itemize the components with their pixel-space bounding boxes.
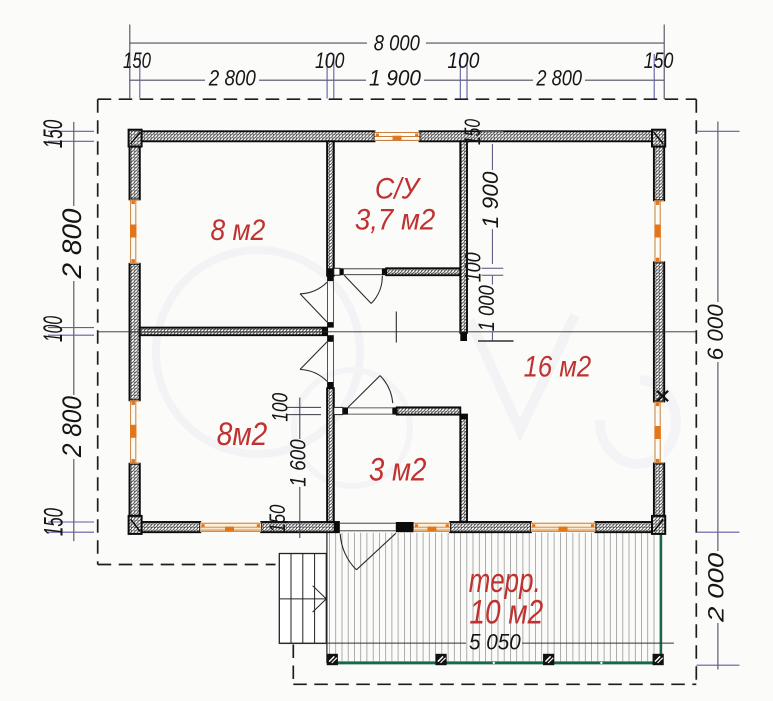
axis tick (395, 312, 397, 343)
top inner ticks (139, 54, 141, 99)
svg-text:3 м2: 3 м2 (369, 452, 427, 488)
wall: left, above upper window (130, 131, 140, 199)
svg-text:1 900: 1 900 (369, 65, 422, 90)
wall: right, between windows (654, 262, 664, 401)
svg-text:150: 150 (265, 504, 290, 533)
svg-text:8м2: 8м2 (217, 416, 268, 452)
window: left wall lower (8m2) (130, 400, 140, 463)
svg-text:100: 100 (447, 48, 480, 73)
svg-text:3,7 м2: 3,7 м2 (355, 204, 436, 237)
wall: bottom, centre-left segment (261, 522, 339, 532)
window: bottom wall (16m2) (531, 522, 596, 532)
interior dim column x=300 (287, 398, 321, 539)
svg-text:8 м2: 8 м2 (211, 214, 266, 247)
left ticks (48, 130, 94, 132)
wall: bottom, right segment (595, 522, 664, 532)
door: C/Y (opening lines) (344, 268, 382, 270)
centre axis line (98, 331, 697, 333)
door: 8m2 lower leaf+arc (300, 342, 327, 370)
corner block bottom-left (129, 516, 142, 534)
top boundary ticks (129, 25, 131, 100)
window: bottom wall (3m2) (414, 522, 450, 532)
door: 8m2 upper leaf+arc (300, 294, 327, 322)
thin wall piece w1->3m2 door (334, 407, 343, 414)
wall: left, between windows (130, 264, 140, 401)
dim line segments row (130, 79, 205, 81)
wall: interior vertical (8m2|3m2), lower part (327, 388, 334, 522)
door: 3m2 leaf+arc (348, 376, 380, 408)
watermark (156, 250, 676, 486)
svg-text:2 800: 2 800 (57, 209, 87, 280)
svg-text:150: 150 (38, 120, 68, 149)
wall: left, below lower window (130, 464, 140, 533)
wall: right, above upper window (654, 131, 664, 200)
window: bottom wall (8m2 lower) (200, 522, 261, 532)
terrace green right rail (660, 529, 663, 665)
wall: right, below lower window (654, 464, 664, 533)
door: C/Y leaf+arc (344, 275, 371, 303)
wall: bottom, left segment (130, 522, 201, 532)
svg-text:2 000: 2 000 (703, 552, 728, 623)
svg-text:2 800: 2 800 (57, 396, 87, 458)
interior dim column x=492 (482, 132, 504, 342)
svg-text:100: 100 (315, 48, 345, 73)
wall: top, left of window (130, 131, 375, 141)
terrace left edge (326, 532, 328, 663)
stairs to terrace (279, 554, 326, 644)
right dim line (717, 122, 719, 303)
window: left wall upper (8m2) (130, 199, 140, 263)
thin wall piece w1->C/Y door (334, 268, 340, 275)
svg-text:2 800: 2 800 (536, 66, 583, 91)
right ticks (697, 130, 740, 132)
door: 8m2 upper (opening lines) (327, 281, 329, 322)
corner chamfer marks (131, 132, 664, 531)
svg-text:С/У: С/У (375, 172, 422, 205)
wall: bottom, centre-right segment (450, 522, 531, 532)
corner block bottom-right (652, 516, 665, 534)
svg-text:100: 100 (38, 316, 68, 342)
wall: interior vertical (C/Y|16m2) (460, 141, 467, 332)
window: top wall (C/Y) (375, 132, 420, 141)
wall: interior vertical (8m2|C/Y), upper part (327, 141, 334, 275)
wall: 3m2 east (3m2|16m2) (460, 415, 467, 522)
svg-text:100: 100 (460, 252, 485, 283)
svg-text:5 050: 5 050 (469, 630, 521, 655)
terrace deck hatch (330, 533, 655, 661)
wall: interior horizontal between 8m2 rooms (140, 328, 327, 336)
corner block top-right (652, 130, 665, 147)
wall: 3m2 north, right of door (397, 407, 461, 414)
terrace posts (327, 654, 338, 665)
svg-text:1 900: 1 900 (478, 171, 503, 229)
svg-text:2 800: 2 800 (208, 65, 256, 90)
wall: C/Y south, right of door (386, 268, 460, 275)
svg-text:100: 100 (268, 392, 293, 422)
corner block top-left (129, 130, 142, 147)
svg-text:8 000: 8 000 (374, 30, 421, 55)
svg-text:150: 150 (123, 48, 152, 73)
door jamb caps (327, 276, 334, 281)
wall: bottom, terrace-door right jamb block (396, 522, 414, 532)
svg-text:1 600: 1 600 (286, 439, 311, 487)
cross mark (right wall) (657, 391, 668, 401)
door: 3m2 (opening lines) (348, 407, 392, 409)
svg-text:150: 150 (38, 508, 68, 536)
svg-text:150: 150 (644, 48, 674, 73)
left dim line (73, 122, 75, 206)
door: terrace leaf+arc (356, 533, 395, 570)
svg-text:150: 150 (460, 118, 485, 145)
svg-text:16 м2: 16 м2 (524, 351, 592, 384)
svg-text:6 000: 6 000 (703, 304, 728, 361)
window: right wall lower (16m2) (654, 402, 664, 464)
svg-text:10 м2: 10 м2 (469, 594, 543, 632)
wall: top, right of window (420, 131, 665, 141)
dim line 8000 (130, 42, 367, 44)
5050 dim line (279, 642, 466, 644)
tick 1000 end (478, 340, 514, 342)
door: terrace (threshold lines) (339, 522, 396, 524)
door: 8m2 lower (opening lines) (327, 342, 329, 382)
terrace green bottom rail (327, 661, 662, 664)
svg-text:1 000: 1 000 (474, 285, 499, 332)
plot boundary (dashed) (98, 99, 697, 684)
window: right wall upper (16m2) (654, 200, 664, 262)
